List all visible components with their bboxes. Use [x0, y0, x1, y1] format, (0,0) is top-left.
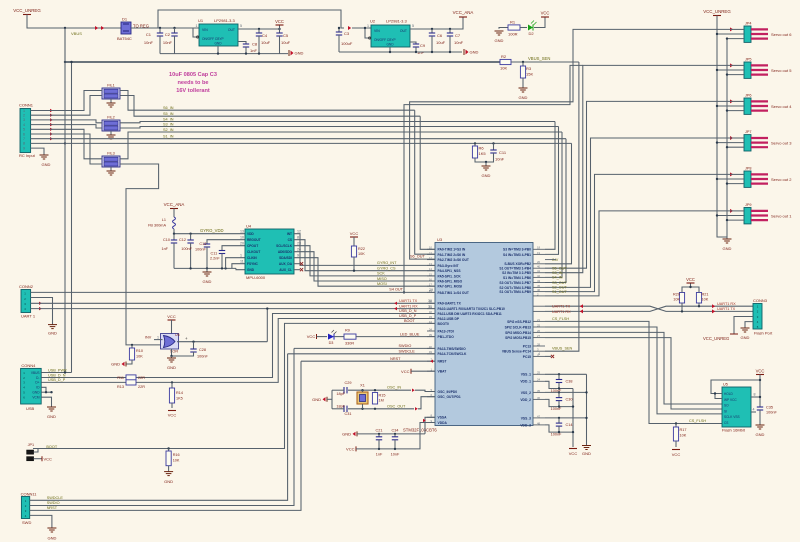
JP5 power wire — [717, 69, 744, 71]
U1 output wire to VCC — [238, 28, 280, 30]
net UART1 RX wire with crossover — [545, 306, 753, 311]
svg-text:21: 21 — [537, 318, 541, 322]
filter FIL2 — [102, 120, 120, 131]
connector JP5 Servo out 5 — [744, 62, 751, 78]
svg-text:GYRO_VDD: GYRO_VDD — [200, 228, 224, 233]
svg-text:VCC_ANA: VCC_ANA — [453, 10, 474, 15]
svg-text:PA4-SPI1_NSS: PA4-SPI1_NSS — [438, 269, 462, 273]
svg-text:NRST: NRST — [438, 360, 447, 364]
LED D2 green — [520, 27, 527, 29]
capacitor C5 10uF — [279, 29, 281, 33]
svg-text:SPI2 MOSI-PB15: SPI2 MOSI-PB15 — [505, 336, 531, 340]
resistor R21 10K pullup — [696, 293, 701, 304]
svg-text:10K: 10K — [680, 434, 687, 438]
VCC feed for R20/R21 — [682, 287, 699, 293]
svg-text:GND: GND — [164, 479, 173, 484]
svg-text:PA11-USB DM UART3 RX/I2C1 SDA: PA11-USB DM UART3 RX/I2C1 SDA-PB11 — [438, 312, 502, 316]
svg-text:C7: C7 — [455, 33, 461, 38]
JP7 power wire — [717, 142, 744, 144]
svg-text:S3_IN: S3_IN — [163, 123, 174, 127]
svg-text:18pF: 18pF — [336, 392, 345, 396]
svg-text:S3_OUT: S3_OUT — [552, 281, 567, 285]
svg-text:LP2981-3.3: LP2981-3.3 — [214, 18, 235, 23]
ground CONN1 — [40, 154, 49, 156]
JP7 signal arrow — [730, 136, 733, 140]
VDD wire group C30 — [545, 399, 559, 406]
FIL3 ground — [110, 167, 112, 171]
resistor R6 1K5 (sbus filter) — [474, 142, 476, 144]
CONN2 pin1 wire S4_OUT long wire — [31, 291, 435, 293]
svg-text:24: 24 — [537, 378, 541, 382]
wire CONN1 pin8 S-Bus row — [31, 142, 65, 144]
svg-text:10nF: 10nF — [391, 453, 400, 457]
regulator U2 LP2981-3.3 — [371, 25, 410, 47]
svg-text:CONN1: CONN1 — [19, 103, 34, 108]
svg-text:UART 1: UART 1 — [21, 314, 36, 319]
svg-text:CS: CS — [724, 421, 728, 425]
svg-text:VCC_UNREG: VCC_UNREG — [703, 336, 729, 341]
svg-text:VCC_ANA: VCC_ANA — [164, 202, 185, 207]
svg-text:C12: C12 — [179, 238, 186, 242]
wire S1 in vertical — [545, 139, 566, 283]
svg-text:U4: U4 — [246, 224, 252, 229]
wire servo out 3 net — [545, 138, 734, 287]
svg-text:C9: C9 — [420, 43, 426, 48]
svg-text:10nF: 10nF — [163, 40, 173, 45]
svg-text:20: 20 — [537, 260, 541, 264]
svg-text:VBUS Sense-PC14: VBUS Sense-PC14 — [502, 350, 531, 354]
XOR output vertical to UART RX line — [266, 309, 268, 342]
connector CONN4 USB — [21, 368, 42, 404]
svg-text:OSC_OUT: OSC_OUT — [387, 404, 406, 408]
wire SPI2 SCLK to flash — [545, 327, 722, 414]
svg-text:100nF: 100nF — [195, 247, 206, 251]
svg-text:2.2nF: 2.2nF — [210, 257, 220, 261]
MPU MISO wire — [294, 252, 435, 281]
flash hold/wp tie to VCC — [711, 380, 760, 394]
svg-text:PC13: PC13 — [523, 344, 531, 348]
VDD wire group C38 — [545, 381, 559, 388]
VDD wire group C14 — [545, 425, 559, 432]
svg-text:FIL3: FIL3 — [107, 152, 115, 156]
svg-text:10K: 10K — [173, 459, 180, 463]
svg-text:OUT: OUT — [228, 28, 235, 32]
svg-text:PA1-TIM2 2=S6 IN: PA1-TIM2 2=S6 IN — [438, 253, 466, 257]
svg-text:27: 27 — [537, 334, 541, 338]
VSS wire group C14 — [545, 417, 587, 419]
crystal osc-in node wire — [348, 389, 411, 391]
svg-text:R2: R2 — [501, 54, 507, 59]
capacitor C34 10nF — [394, 434, 396, 437]
U1 ground pin wire — [217, 46, 219, 54]
net NRST wire at MCU — [301, 360, 435, 362]
VSS wire group C30 — [545, 391, 587, 393]
svg-text:UART1 RX: UART1 RX — [552, 310, 571, 314]
svg-text:VBUS: VBUS — [31, 371, 40, 375]
xtal gnd bus — [331, 390, 333, 409]
svg-text:ON/OFF CBYP: ON/OFF CBYP — [202, 37, 224, 41]
svg-text:VIN: VIN — [202, 28, 208, 32]
svg-text:R11: R11 — [117, 376, 124, 380]
svg-text:C29: C29 — [345, 381, 352, 385]
svg-text:17: 17 — [429, 283, 433, 287]
svg-text:VBAT: VBAT — [438, 370, 447, 374]
flash vcc pin8 — [751, 396, 760, 398]
svg-text:USB_D_P: USB_D_P — [48, 378, 66, 382]
connector CONN1 RC input — [20, 109, 31, 153]
VBAT pin VCC — [410, 369, 412, 374]
svg-text:10uF: 10uF — [281, 40, 291, 45]
svg-text:10uF: 10uF — [436, 40, 446, 45]
svg-text:S4 OUT: S4 OUT — [389, 288, 403, 292]
svg-text:S4_IN: S4_IN — [163, 118, 174, 122]
svg-text:LED_BLUE: LED_BLUE — [400, 332, 420, 336]
inductor L1 FB 300mA — [173, 217, 176, 229]
svg-text:VCC_UNREG: VCC_UNREG — [703, 9, 731, 14]
JP5 signal arrow — [730, 63, 733, 67]
svg-text:1K5: 1K5 — [479, 151, 487, 156]
svg-text:GND: GND — [47, 536, 56, 541]
wire VBUS_SEN to PC14 — [545, 62, 579, 351]
wires CONN1 to FIL2 — [31, 120, 102, 123]
svg-text:100nF: 100nF — [551, 432, 562, 436]
svg-text:MOSI: MOSI — [377, 282, 387, 286]
svg-text:JP1: JP1 — [28, 443, 35, 447]
NRST long wire — [30, 361, 301, 510]
svg-text:SWDCLE: SWDCLE — [47, 496, 64, 500]
svg-text:48: 48 — [537, 421, 541, 425]
net BOOT wire vertical — [33, 323, 435, 448]
svg-text:100nF: 100nF — [766, 411, 777, 415]
capacitor C1 10nF — [159, 28, 161, 33]
svg-text:FSYNC: FSYNC — [247, 262, 259, 266]
svg-text:18: 18 — [537, 246, 541, 250]
svg-text:40: 40 — [537, 265, 541, 269]
svg-text:PA8-TIM1 1=S4 OUT: PA8-TIM1 1=S4 OUT — [438, 291, 469, 295]
red arrows UART at MCU — [580, 304, 583, 308]
svg-text:VCM: VCM — [32, 396, 39, 400]
svg-text:VDD_1: VDD_1 — [520, 380, 531, 384]
gate U6 XOR (inverter) — [161, 334, 179, 350]
svg-text:SCK: SCK — [377, 272, 385, 276]
wire SPI2 MOSI to flash — [545, 338, 722, 409]
svg-text:CS: CS — [288, 238, 292, 242]
flash vss pin4 — [751, 411, 756, 413]
svg-text:1: 1 — [23, 109, 25, 113]
svg-text:CLKOUT: CLKOUT — [247, 250, 260, 254]
VSS wire group C38 — [545, 373, 587, 375]
FIL3 output b down to XOR input — [120, 164, 163, 345]
resistor R20 10K pullup — [679, 293, 684, 304]
wires CONN1 to FIL1 — [31, 91, 102, 111]
svg-text:S1_OUT: S1_OUT — [552, 290, 567, 294]
svg-text:GND: GND — [47, 414, 56, 419]
svg-text:AUX_CL: AUX_CL — [279, 268, 292, 272]
svg-text:FB 300mA: FB 300mA — [148, 224, 166, 228]
svg-text:MPU-6000: MPU-6000 — [246, 275, 266, 280]
svg-text:C5: C5 — [283, 33, 289, 38]
svg-text:VDDA: VDDA — [438, 421, 448, 425]
svg-text:S1 OUT=TIM4 4-PB9: S1 OUT=TIM4 4-PB9 — [499, 290, 531, 294]
svg-text:R16: R16 — [173, 453, 180, 457]
wire servo out 1 net — [545, 211, 734, 296]
svg-text:Servo out 1: Servo out 1 — [771, 213, 792, 218]
svg-text:S3 OUT=TIM4 2-PB7: S3 OUT=TIM4 2-PB7 — [499, 281, 531, 285]
svg-text:WP VCC: WP VCC — [724, 398, 737, 402]
svg-text:5: 5 — [412, 24, 414, 28]
svg-text:Flash Port: Flash Port — [754, 331, 773, 336]
svg-text:U3: U3 — [437, 237, 443, 242]
wire servo out 6 net (PA2 route) — [410, 29, 734, 259]
JP8 power wire — [717, 178, 744, 180]
USB_PWR wire — [41, 372, 71, 374]
svg-text:NRST: NRST — [47, 506, 58, 510]
svg-text:JP7: JP7 — [745, 130, 752, 134]
USB gnd pins — [41, 387, 46, 392]
wire S-Bus long line — [65, 142, 572, 144]
svg-text:OSC_IN/PD0: OSC_IN/PD0 — [438, 390, 458, 394]
long VBUS vertical to USB — [64, 28, 66, 373]
capacitor C2 10nF — [174, 28, 176, 33]
svg-text:26: 26 — [537, 329, 541, 333]
svg-text:R14: R14 — [176, 391, 183, 395]
svg-text:10K: 10K — [136, 355, 143, 359]
ground for R1 — [495, 30, 504, 32]
svg-text:6: 6 — [23, 132, 25, 136]
svg-text:15K: 15K — [526, 72, 533, 77]
CONN11 gnd pin — [30, 515, 52, 528]
svg-text:35: 35 — [537, 389, 541, 393]
svg-text:S5_IN: S5_IN — [163, 112, 174, 116]
svg-text:330R: 330R — [345, 342, 354, 346]
svg-text:34: 34 — [429, 327, 433, 331]
svg-text:VCC: VCC — [168, 413, 177, 418]
VSSA wire and arrow — [425, 417, 435, 434]
svg-text:CS_FLSH: CS_FLSH — [689, 419, 706, 423]
capacitor C21 1nF — [378, 434, 380, 437]
svg-text:4: 4 — [753, 408, 755, 412]
PC15 stub — [545, 355, 551, 357]
svg-text:VCC: VCC — [346, 447, 355, 452]
servo VCC rail — [717, 16, 727, 240]
svg-text:CPOUT: CPOUT — [247, 244, 258, 248]
svg-text:FIL1: FIL1 — [107, 84, 115, 88]
svg-text:16: 16 — [429, 277, 433, 281]
resistor R10 10K (inv input pulldown) — [131, 345, 133, 348]
svg-text:INV: INV — [145, 335, 152, 339]
U2 gnd pin — [389, 47, 391, 52]
svg-text:100nF: 100nF — [197, 355, 208, 359]
svg-text:GND: GND — [386, 43, 394, 47]
svg-text:28: 28 — [537, 342, 541, 346]
svg-text:R6: R6 — [479, 146, 485, 151]
svg-text:1nF: 1nF — [250, 48, 257, 53]
svg-text:Servo out 2: Servo out 2 — [771, 177, 792, 182]
svg-text:GND: GND — [312, 397, 321, 402]
sbus filter ground — [475, 153, 494, 162]
svg-text:PA14-TCK/SWCLK: PA14-TCK/SWCLK — [438, 352, 467, 356]
wire SPI2 MISO to flash — [545, 332, 722, 404]
capacitor C29 18pF — [343, 387, 345, 393]
U2 output wire — [410, 17, 463, 29]
svg-text:1M: 1M — [379, 399, 384, 403]
svg-text:11: 11 — [240, 260, 244, 264]
svg-text:20: 20 — [240, 242, 244, 246]
svg-text:10nF: 10nF — [454, 40, 464, 45]
svg-text:PA13-JTDI: PA13-JTDI — [438, 329, 454, 333]
svg-text:UART1 RX: UART1 RX — [717, 302, 736, 306]
svg-text:BOOT0: BOOT0 — [438, 322, 450, 326]
gnd port (analog filter) — [356, 431, 358, 436]
capacitor C35 100nF — [757, 406, 763, 408]
MPU CS wire to GYRO_CS — [294, 240, 435, 271]
MPU MOSI wire — [294, 258, 435, 287]
svg-text:C1: C1 — [146, 32, 152, 37]
svg-text:S1_IN: S1_IN — [163, 135, 174, 139]
svg-text:OSC_IN: OSC_IN — [387, 386, 401, 390]
svg-text:8: 8 — [754, 393, 756, 397]
resistor R3 15K — [522, 62, 524, 66]
capacitor C13 100nF (REGOUT) — [207, 240, 245, 244]
svg-text:VCC: VCC — [350, 231, 359, 236]
svg-text:UART1 RX: UART1 RX — [399, 304, 418, 308]
svg-text:USB_D_P: USB_D_P — [399, 314, 417, 318]
svg-text:JP6: JP6 — [745, 93, 752, 97]
svg-text:GND: GND — [247, 268, 255, 272]
capacitor C30 100nF — [558, 392, 560, 397]
svg-text:S2 IN=TIM 3 2-PB5: S2 IN=TIM 3 2-PB5 — [502, 271, 531, 275]
MPU aux no-connect stubs — [294, 263, 300, 265]
svg-text:PA13-TMS/SWDIO: PA13-TMS/SWDIO — [438, 347, 467, 351]
svg-text:SCL/SCLK: SCL/SCLK — [276, 244, 293, 248]
svg-text:36: 36 — [537, 396, 541, 400]
svg-text:AUX_DA: AUX_DA — [279, 262, 293, 266]
svg-text:GND: GND — [519, 95, 528, 100]
svg-text:GND: GND — [741, 335, 750, 340]
svg-text:C11: C11 — [211, 252, 218, 256]
capacitor C11 2.2nF (CPOUT) — [222, 246, 245, 251]
svg-text:GND: GND — [470, 50, 479, 55]
svg-text:1K5: 1K5 — [176, 397, 183, 401]
net SWDCLK wire — [288, 353, 435, 355]
svg-text:JP8: JP8 — [745, 166, 752, 170]
svg-text:INT: INT — [287, 232, 292, 236]
svg-text:C28: C28 — [199, 348, 206, 352]
svg-text:4: 4 — [538, 352, 540, 356]
mcu U3 STM32F103CBT6 — [435, 243, 533, 426]
svg-text:C10: C10 — [163, 238, 170, 242]
svg-text:U5: U5 — [723, 383, 728, 387]
svg-text:GND: GND — [214, 42, 222, 46]
MPU SCK wire — [294, 246, 435, 276]
svg-text:R21: R21 — [702, 293, 709, 297]
svg-text:D2: D2 — [528, 31, 534, 36]
VCC vertical (decoupling) — [572, 389, 574, 448]
JP6 signal arrow — [730, 99, 733, 103]
capacitor C7 10nF — [449, 29, 451, 33]
svg-text:100uF: 100uF — [341, 41, 353, 46]
mcu UART1 pin stubs — [533, 305, 545, 307]
connector JP8 Servo out 2 — [744, 171, 751, 187]
svg-text:FIL2: FIL2 — [107, 116, 115, 120]
svg-text:USB: USB — [26, 406, 35, 411]
svg-text:JP5: JP5 — [745, 57, 752, 61]
GND vertical (decoupling) — [586, 374, 588, 445]
JP4 signal arrow — [730, 27, 733, 31]
svg-text:R9: R9 — [345, 329, 350, 333]
svg-text:ON/OFF CBYP: ON/OFF CBYP — [374, 38, 396, 42]
svg-text:100nF: 100nF — [181, 247, 192, 251]
svg-text:10K: 10K — [702, 298, 709, 302]
net port arrows on VCC_UNREG wire — [95, 26, 98, 30]
JP6 ground wire — [727, 110, 744, 112]
XOR output + plus sign — [177, 341, 267, 343]
svg-text:C4: C4 — [262, 33, 268, 38]
svg-text:C14: C14 — [566, 423, 573, 427]
svg-text:41: 41 — [537, 269, 541, 273]
connector CONN11 SWD — [21, 497, 29, 519]
net USB_D_P wire — [136, 319, 435, 383]
connector JP7 Servo out 3 — [744, 135, 751, 151]
svg-text:CS_FLSH: CS_FLSH — [552, 317, 569, 321]
resistor R15 1M — [372, 393, 377, 405]
svg-text:Servo out 5: Servo out 5 — [771, 68, 792, 73]
svg-text:CONN3: CONN3 — [753, 298, 768, 303]
JP4 ground wire — [727, 38, 744, 40]
svg-text:L1: L1 — [162, 218, 166, 222]
svg-text:5: 5 — [23, 128, 25, 132]
svg-text:SPI2 MISO-PB14: SPI2 MISO-PB14 — [505, 331, 531, 335]
CONN1 gnd pin wire — [31, 148, 44, 155]
FIL2 outputs to S4/S3 rows — [120, 122, 555, 123]
svg-text:SCLK VSS: SCLK VSS — [724, 415, 740, 419]
svg-text:PA5-SPI1_SCK: PA5-SPI1_SCK — [438, 274, 462, 278]
U1 CBYP pin + capacitor C8 1nF — [238, 42, 246, 45]
svg-text:GND: GND — [295, 51, 304, 56]
svg-text:31: 31 — [428, 305, 432, 309]
svg-text:15: 15 — [429, 272, 433, 276]
XOR ground — [171, 349, 173, 357]
svg-text:OSC_OUT/PD1: OSC_OUT/PD1 — [438, 395, 461, 399]
net arrow into U2 — [348, 26, 351, 30]
svg-text:14: 14 — [429, 267, 433, 271]
svg-text:R1: R1 — [510, 20, 516, 25]
svg-text:VBUS_SEN: VBUS_SEN — [528, 56, 550, 61]
ground rail of U1 stage — [160, 53, 288, 55]
capacitor C12 100nF — [190, 234, 192, 240]
svg-text:VDD_3: VDD_3 — [520, 423, 531, 427]
svg-text:VSS_1: VSS_1 — [521, 373, 531, 377]
wire D2 to VCC — [534, 17, 545, 28]
svg-text:22R: 22R — [138, 385, 145, 389]
FIL2 ground — [110, 131, 112, 135]
servo rail ground — [723, 238, 732, 240]
svg-text:MISO: MISO — [377, 277, 387, 281]
resistor R14 1K5 (D+ pullup) — [171, 381, 173, 383]
svg-text:C8: C8 — [252, 42, 258, 47]
ground port GND (U1 stage) — [288, 50, 290, 56]
svg-text:needs to be: needs to be — [177, 80, 208, 86]
CONN3 vcc_unreg pin — [734, 317, 753, 335]
svg-text:GND: GND — [42, 162, 51, 167]
svg-text:25: 25 — [537, 371, 541, 375]
svg-text:S5_OUT: S5_OUT — [552, 267, 567, 271]
svg-text:10K: 10K — [500, 66, 507, 71]
svg-text:GND: GND — [32, 391, 40, 395]
svg-text:19: 19 — [537, 251, 541, 255]
svg-text:VSS_3: VSS_3 — [521, 416, 531, 420]
svg-text:S4 IN=TIM3 4-PB1: S4 IN=TIM3 4-PB1 — [503, 253, 531, 257]
